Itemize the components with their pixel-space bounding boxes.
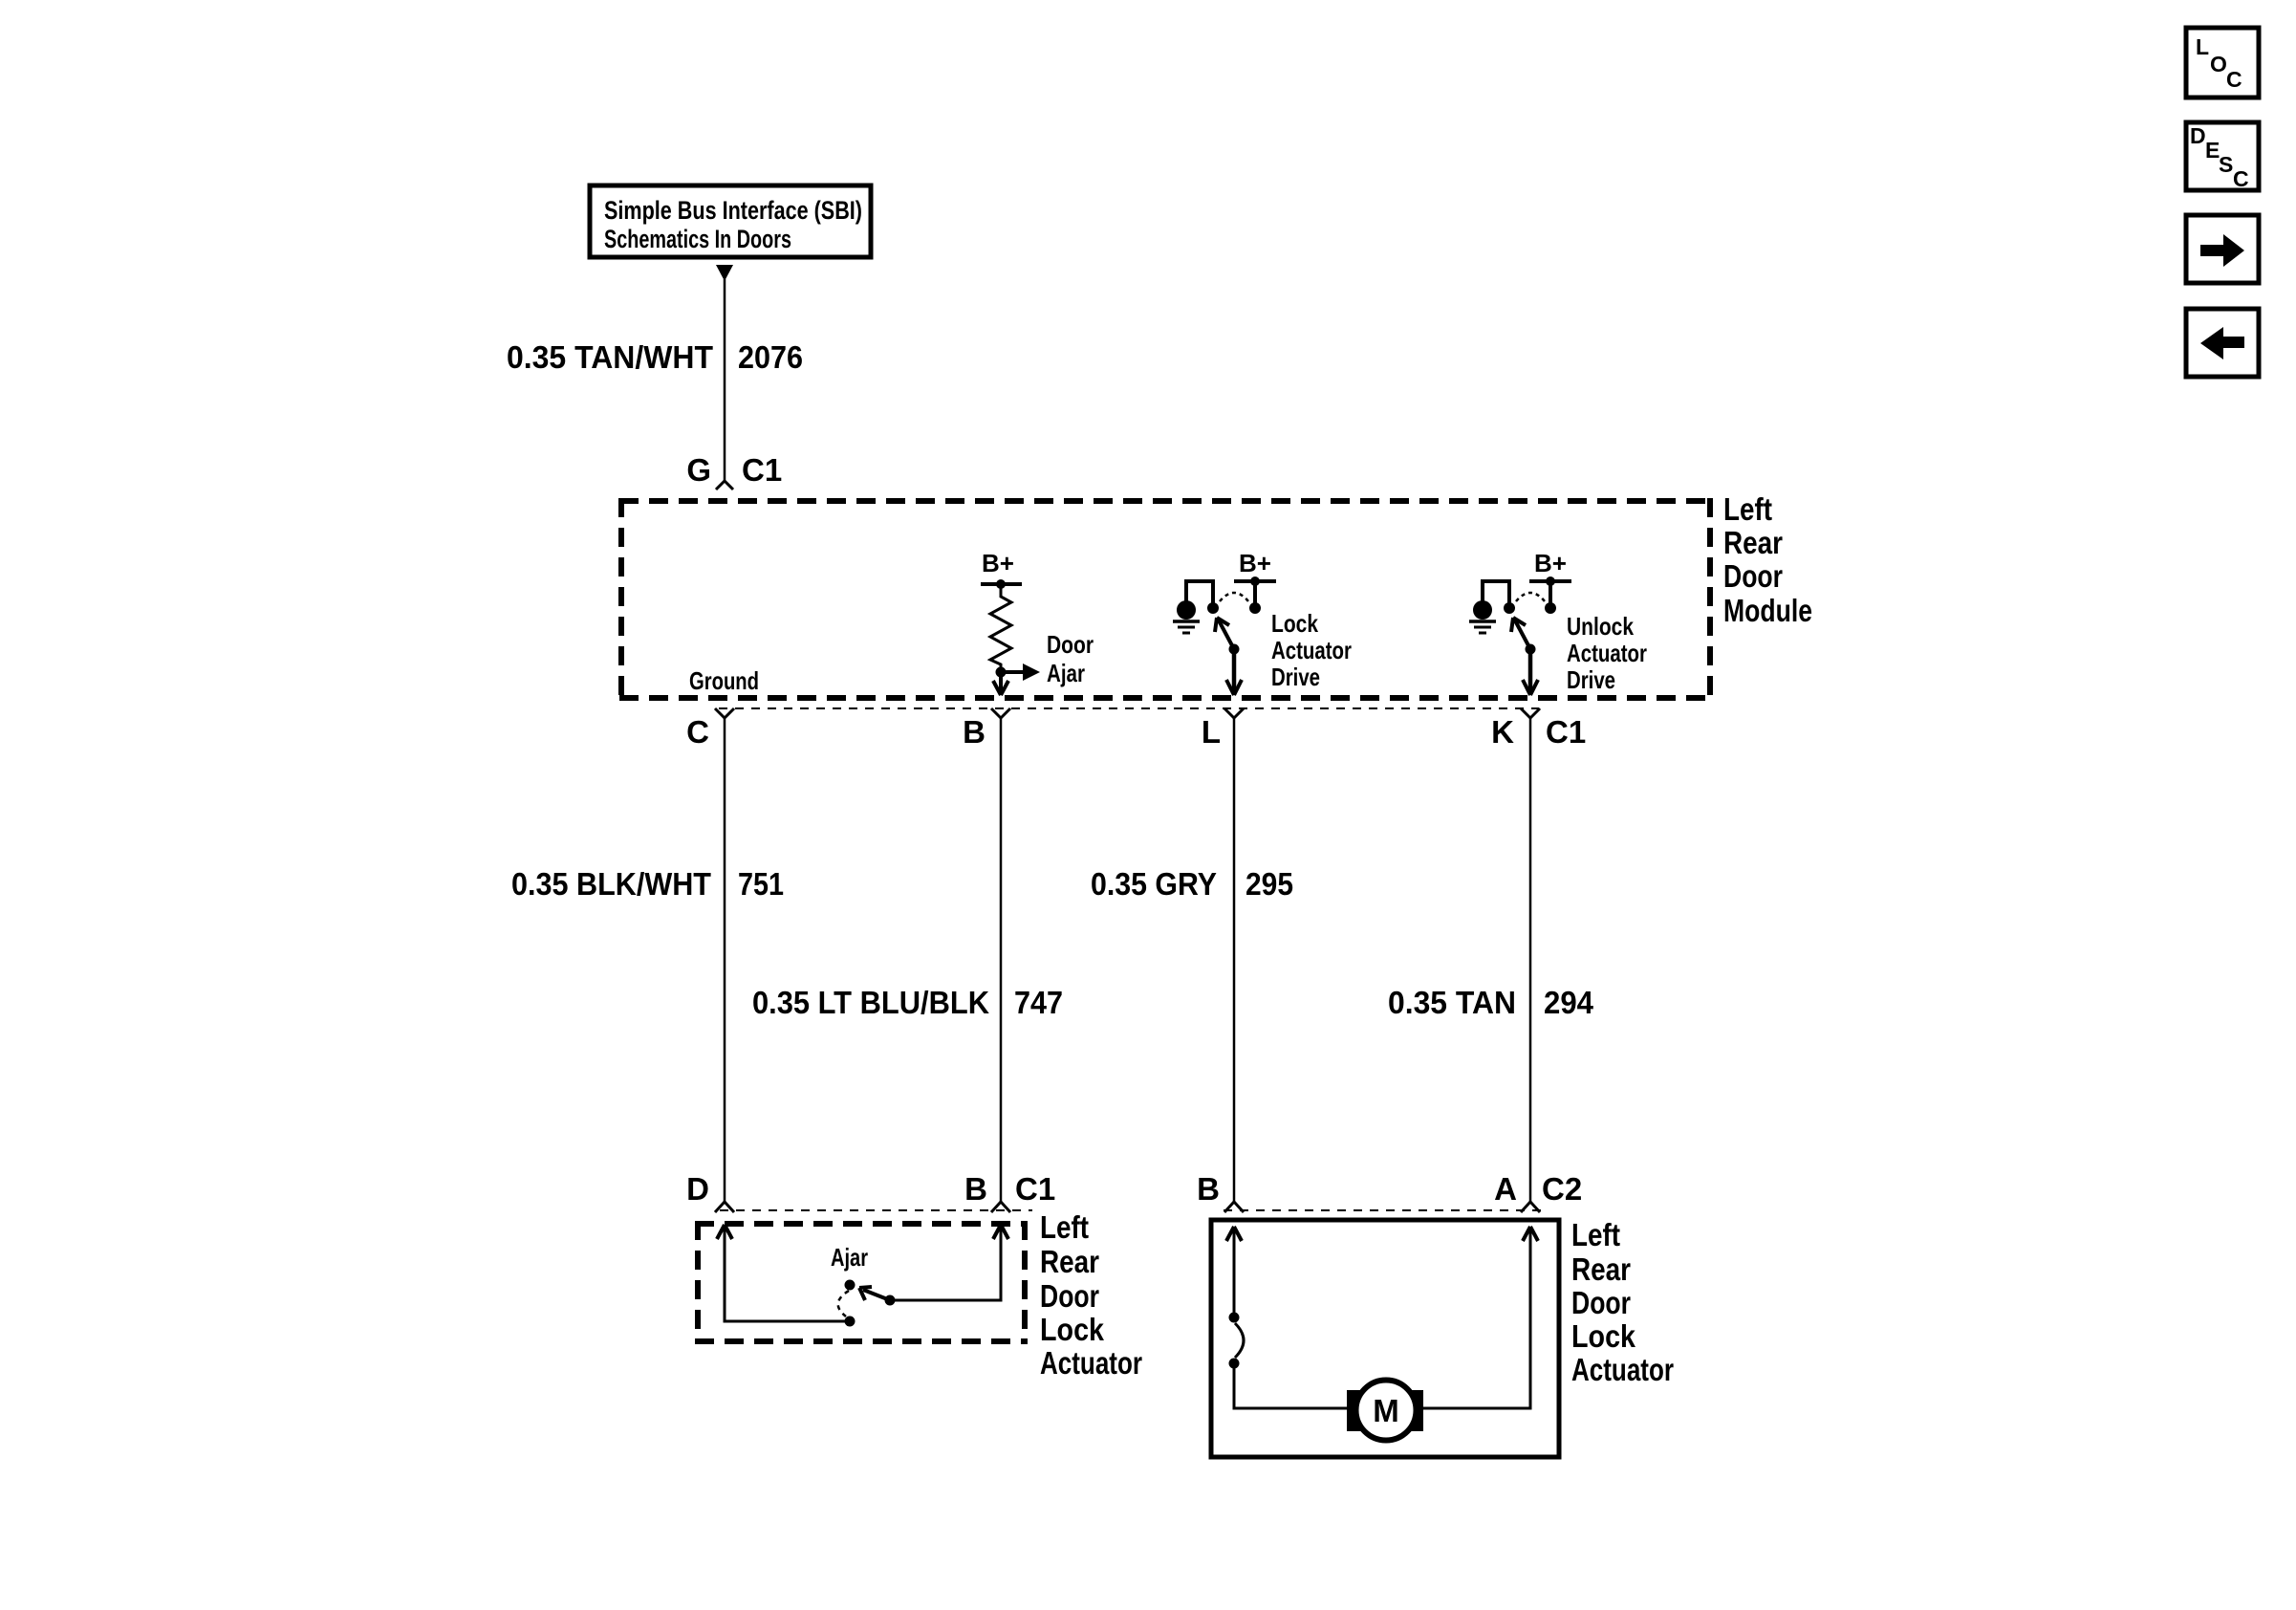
svg-text:0.35 TAN: 0.35 TAN	[1388, 985, 1516, 1020]
svg-text:0.35 TAN/WHT: 0.35 TAN/WHT	[507, 339, 713, 375]
svg-text:C1: C1	[1015, 1171, 1055, 1207]
svg-text:Lock: Lock	[1040, 1312, 1105, 1347]
svg-text:L: L	[2196, 34, 2209, 59]
svg-text:G: G	[686, 452, 711, 488]
svg-text:Ajar: Ajar	[1047, 659, 1085, 687]
svg-text:Actuator: Actuator	[1567, 639, 1647, 667]
svg-text:L: L	[1202, 714, 1221, 750]
svg-text:Rear: Rear	[1571, 1251, 1631, 1287]
svg-text:Unlock: Unlock	[1567, 612, 1634, 641]
svg-text:C: C	[2233, 166, 2249, 191]
svg-text:Rear: Rear	[1723, 525, 1783, 560]
svg-text:D: D	[2190, 123, 2206, 148]
svg-text:C: C	[2226, 67, 2242, 92]
svg-text:C: C	[686, 714, 709, 750]
svg-text:Left: Left	[1571, 1217, 1620, 1252]
svg-text:0.35 BLK/WHT: 0.35 BLK/WHT	[511, 866, 711, 902]
svg-text:O: O	[2210, 52, 2227, 76]
svg-text:2076: 2076	[738, 339, 803, 375]
svg-text:K: K	[1491, 714, 1514, 750]
svg-text:Ground: Ground	[689, 666, 759, 695]
svg-text:Actuator: Actuator	[1040, 1345, 1142, 1381]
svg-text:Schematics In Doors: Schematics In Doors	[604, 225, 791, 253]
svg-text:Door: Door	[1723, 558, 1783, 594]
svg-text:Door: Door	[1571, 1285, 1631, 1320]
svg-text:Rear: Rear	[1040, 1244, 1099, 1279]
svg-text:C1: C1	[1546, 714, 1586, 750]
svg-text:295: 295	[1245, 866, 1293, 902]
svg-text:Left: Left	[1040, 1209, 1089, 1245]
svg-text:Actuator: Actuator	[1271, 636, 1352, 664]
svg-text:Lock: Lock	[1571, 1318, 1636, 1354]
svg-text:751: 751	[738, 866, 784, 902]
svg-text:0.35 LT BLU/BLK: 0.35 LT BLU/BLK	[752, 985, 989, 1020]
svg-text:S: S	[2219, 152, 2233, 177]
svg-text:747: 747	[1014, 985, 1063, 1020]
svg-text:Drive: Drive	[1271, 663, 1320, 691]
svg-text:B: B	[964, 1171, 987, 1207]
svg-text:C2: C2	[1542, 1171, 1582, 1207]
svg-text:Ajar: Ajar	[831, 1243, 868, 1272]
svg-text:B+: B+	[982, 549, 1014, 577]
svg-text:B+: B+	[1534, 549, 1567, 577]
svg-text:Door: Door	[1040, 1278, 1099, 1314]
svg-text:B+: B+	[1239, 549, 1271, 577]
svg-text:Lock: Lock	[1271, 609, 1318, 638]
svg-text:C1: C1	[742, 452, 782, 488]
svg-text:Door: Door	[1047, 630, 1094, 659]
svg-text:D: D	[686, 1171, 709, 1207]
svg-text:M: M	[1373, 1393, 1399, 1428]
svg-text:Left: Left	[1723, 491, 1772, 527]
svg-text:294: 294	[1544, 985, 1594, 1020]
svg-text:B: B	[963, 714, 986, 750]
svg-text:0.35 GRY: 0.35 GRY	[1091, 866, 1217, 902]
svg-text:A: A	[1494, 1171, 1517, 1207]
svg-text:Simple Bus Interface (SBI): Simple Bus Interface (SBI)	[604, 196, 862, 225]
svg-text:Actuator: Actuator	[1571, 1352, 1674, 1387]
svg-text:Module: Module	[1723, 593, 1812, 628]
svg-text:Drive: Drive	[1567, 665, 1615, 694]
svg-text:B: B	[1197, 1171, 1220, 1207]
